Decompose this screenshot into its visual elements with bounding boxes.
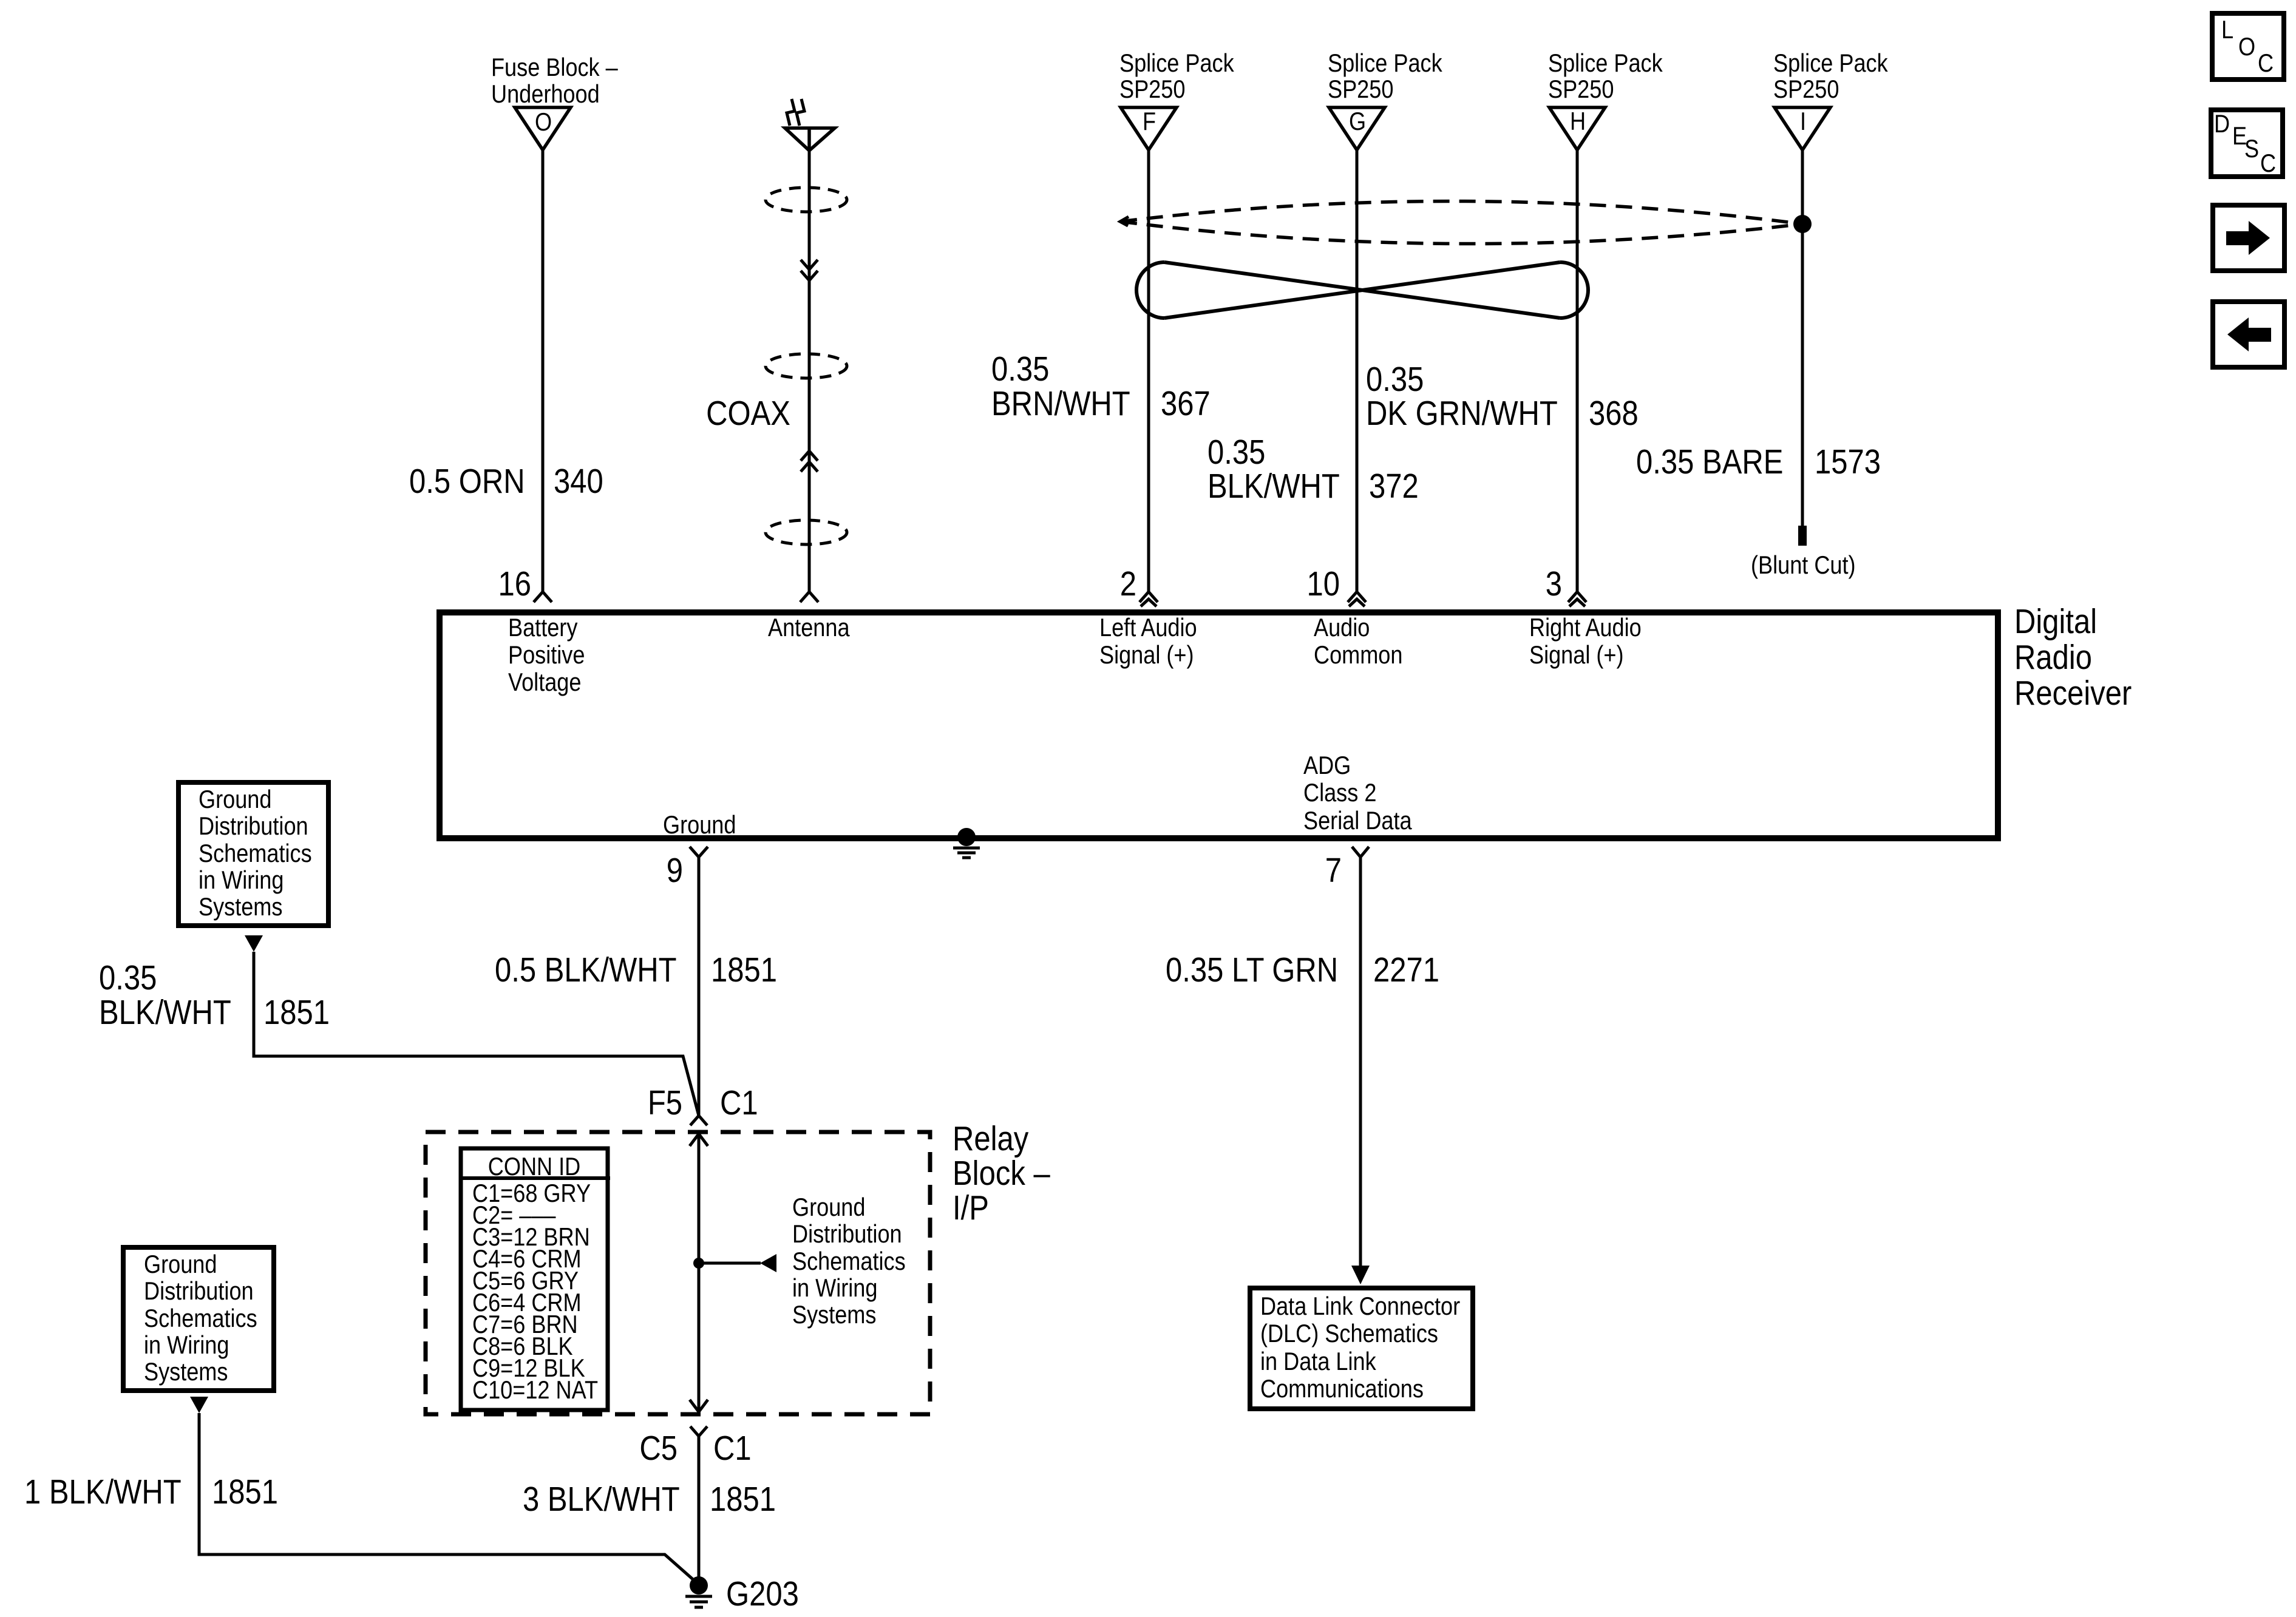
svg-text:C: C xyxy=(2260,150,2276,178)
svg-text:2: 2 xyxy=(1120,565,1136,603)
svg-text:G: G xyxy=(1349,108,1366,136)
fuse block - underhood label xyxy=(491,54,618,109)
label COAX xyxy=(706,395,790,433)
svg-text:Battery: Battery xyxy=(508,614,578,642)
svg-text:0.5 BLK/WHT: 0.5 BLK/WHT xyxy=(495,951,677,989)
svg-text:0.35 LT GRN: 0.35 LT GRN xyxy=(1166,951,1338,989)
splice pack SP250 I label xyxy=(1773,50,1888,104)
arrow from ground distribution box 1 xyxy=(245,935,263,952)
splice pack SP250 F label xyxy=(1119,50,1234,104)
down arrow chevron at relay block exit xyxy=(690,1400,708,1412)
svg-text:Distribution: Distribution xyxy=(144,1278,254,1306)
svg-text:Splice Pack: Splice Pack xyxy=(1548,50,1663,78)
wire: 0.35 DK GRN/WHT 368 (right audio) xyxy=(1576,150,1579,592)
svg-text:Splice Pack: Splice Pack xyxy=(1328,50,1442,78)
svg-text:1 BLK/WHT: 1 BLK/WHT xyxy=(24,1473,182,1511)
value label 0.35 BLK/WHT 1851 xyxy=(99,959,330,1032)
svg-text:0.5 ORN: 0.5 ORN xyxy=(409,463,525,501)
svg-text:Voltage: Voltage xyxy=(508,669,581,697)
coax shield ellipse 3 xyxy=(766,520,847,544)
svg-text:BLK/WHT: BLK/WHT xyxy=(1207,467,1340,506)
svg-text:Schematics: Schematics xyxy=(144,1305,257,1333)
splice pack H triangle xyxy=(1549,107,1605,150)
svg-text:Systems: Systems xyxy=(144,1358,228,1386)
wire: 1 BLK/WHT 1851 branch xyxy=(199,1413,696,1582)
DESC navigation icon xyxy=(2211,110,2283,178)
pin label Right Audio Signal (+) xyxy=(1529,614,1642,670)
svg-text:(DLC) Schematics: (DLC) Schematics xyxy=(1260,1320,1438,1348)
shield drain dashed ellipse xyxy=(1120,201,1802,243)
antenna symbol xyxy=(785,99,835,151)
wire: ground path through relay block xyxy=(698,1134,701,1412)
value label 0.5 BLK/WHT 1851 xyxy=(495,951,777,989)
svg-text:in Wiring: in Wiring xyxy=(144,1332,229,1360)
splice pack SP250 H label xyxy=(1548,50,1663,104)
svg-text:G203: G203 xyxy=(726,1575,799,1613)
left arrow navigation icon xyxy=(2213,302,2284,367)
svg-text:Common: Common xyxy=(1314,642,1402,670)
svg-text:0.35: 0.35 xyxy=(1207,433,1265,472)
svg-text:Splice Pack: Splice Pack xyxy=(1119,50,1234,78)
pin label Ground xyxy=(663,812,736,839)
digital radio receiver box U1 xyxy=(440,612,1998,838)
svg-text:Systems: Systems xyxy=(199,893,282,921)
svg-text:1851: 1851 xyxy=(710,1480,776,1519)
pin 3 xyxy=(1546,565,1562,603)
pin 16 xyxy=(498,565,531,603)
svg-text:F5: F5 xyxy=(648,1084,682,1122)
connector O (Fuse Block - Underhood) triangle xyxy=(515,107,571,150)
svg-text:O: O xyxy=(535,109,552,137)
svg-text:Ground: Ground xyxy=(199,786,271,814)
ground G203 xyxy=(685,1575,799,1613)
svg-text:in Data Link: in Data Link xyxy=(1260,1348,1376,1376)
value label 1 BLK/WHT 1851 xyxy=(24,1473,278,1511)
label (Blunt Cut) xyxy=(1751,552,1856,580)
component name Relay Block - I/P xyxy=(953,1120,1050,1227)
svg-text:Signal (+): Signal (+) xyxy=(1529,642,1624,670)
svg-text:Right Audio: Right Audio xyxy=(1529,614,1642,642)
splice pack I triangle xyxy=(1775,107,1830,150)
svg-text:S: S xyxy=(2244,135,2259,163)
pin label Battery Positive Voltage xyxy=(508,614,585,697)
pin 9 xyxy=(667,852,683,890)
svg-text:Splice Pack: Splice Pack xyxy=(1773,50,1888,78)
svg-text:3: 3 xyxy=(1546,565,1562,603)
svg-text:372: 372 xyxy=(1369,467,1419,506)
pin 2 xyxy=(1120,565,1136,603)
svg-text:Ground: Ground xyxy=(663,812,736,839)
value label 3 BLK/WHT 1851 xyxy=(523,1480,776,1519)
svg-text:H: H xyxy=(1570,108,1586,136)
connector at pin 9 xyxy=(690,847,708,857)
svg-text:SP250: SP250 xyxy=(1328,76,1393,104)
connector at pin 7 xyxy=(1352,847,1369,857)
svg-text:Fuse Block –: Fuse Block – xyxy=(491,54,618,82)
svg-text:2271: 2271 xyxy=(1373,951,1439,989)
svg-text:F: F xyxy=(1143,108,1156,136)
pin 10 xyxy=(1306,565,1340,603)
svg-text:I/P: I/P xyxy=(953,1189,989,1227)
svg-text:Signal (+): Signal (+) xyxy=(1099,642,1194,670)
svg-text:Schematics: Schematics xyxy=(199,840,312,868)
svg-text:Ground: Ground xyxy=(144,1251,217,1279)
wire: coax antenna lead xyxy=(808,151,811,592)
svg-text:Receiver: Receiver xyxy=(2014,674,2131,713)
svg-text:(Blunt Cut): (Blunt Cut) xyxy=(1751,552,1856,580)
svg-text:367: 367 xyxy=(1161,385,1211,423)
svg-text:CONN ID: CONN ID xyxy=(488,1153,580,1181)
svg-text:Data Link Connector: Data Link Connector xyxy=(1260,1293,1460,1321)
svg-text:SP250: SP250 xyxy=(1119,76,1185,104)
svg-text:0.35 BARE: 0.35 BARE xyxy=(1636,443,1783,481)
value label 0.5 ORN 340 xyxy=(409,463,603,501)
connector at pin 2 xyxy=(1140,592,1158,606)
coax shield ellipse 2 xyxy=(766,354,847,378)
svg-text:D: D xyxy=(2214,110,2230,138)
connector at pin 16 xyxy=(534,592,552,602)
coax shield ellipse 1 xyxy=(766,188,847,212)
connector at antenna pin xyxy=(800,592,818,602)
wire: 0.5 ORN 340 (battery feed) xyxy=(542,150,545,592)
pin label ADG Class 2 Serial Data xyxy=(1303,752,1412,835)
svg-text:7: 7 xyxy=(1325,852,1342,890)
svg-text:Schematics: Schematics xyxy=(792,1248,906,1276)
coax direction chevrons up xyxy=(801,451,818,472)
value label 0.35 BRN/WHT 367 xyxy=(991,350,1211,423)
svg-text:16: 16 xyxy=(498,565,531,603)
value label 0.35 DK GRN/WHT 368 xyxy=(1366,361,1639,433)
svg-text:C: C xyxy=(2258,50,2274,78)
svg-text:L: L xyxy=(2221,16,2233,44)
svg-text:C1: C1 xyxy=(720,1084,758,1122)
pin label Antenna xyxy=(768,614,850,642)
value label 0.35 BLK/WHT 372 xyxy=(1207,433,1419,506)
blunt cut terminator xyxy=(1798,526,1807,546)
wire: 3 BLK/WHT 1851 to G203 xyxy=(698,1436,701,1585)
svg-text:Ground: Ground xyxy=(792,1194,865,1222)
svg-text:C10=12 NAT: C10=12 NAT xyxy=(472,1377,598,1405)
svg-text:Digital: Digital xyxy=(2014,603,2097,641)
component name Digital Radio Receiver xyxy=(2014,603,2131,713)
relay block I/P dashed outline xyxy=(426,1132,930,1414)
ground distribution reference note in relay block xyxy=(792,1194,906,1329)
wire: 0.35 BRN/WHT 367 (left audio) xyxy=(1147,150,1150,592)
wire: 0.5 BLK/WHT 1851 (ground) xyxy=(698,857,701,1116)
svg-text:1573: 1573 xyxy=(1815,443,1881,481)
splice pack G triangle xyxy=(1329,107,1385,150)
branch wire to ground distribution reference xyxy=(699,1254,776,1272)
svg-text:C1: C1 xyxy=(713,1429,752,1468)
wire: 0.35 LT GRN 2271 (class 2 serial data) xyxy=(1351,857,1370,1284)
CONN ID table xyxy=(459,1148,610,1410)
svg-text:1851: 1851 xyxy=(263,994,330,1032)
splice pack SP250 G label xyxy=(1328,50,1442,104)
value label 0.35 BARE 1573 xyxy=(1636,443,1881,481)
ground distribution reference box 2 xyxy=(123,1247,274,1391)
svg-text:Underhood: Underhood xyxy=(491,81,600,109)
value label 0.35 LT GRN 2271 xyxy=(1166,951,1439,989)
svg-text:Serial Data: Serial Data xyxy=(1303,807,1412,835)
connector at pin 10 xyxy=(1348,592,1366,606)
svg-text:BLK/WHT: BLK/WHT xyxy=(99,994,231,1032)
svg-text:SP250: SP250 xyxy=(1548,76,1614,104)
svg-text:Audio: Audio xyxy=(1314,614,1370,642)
svg-text:3 BLK/WHT: 3 BLK/WHT xyxy=(523,1480,680,1519)
ground distribution reference box 1 xyxy=(178,782,328,926)
right arrow navigation icon xyxy=(2213,205,2284,271)
svg-text:SP250: SP250 xyxy=(1773,76,1839,104)
chassis ground symbol on receiver case xyxy=(953,828,980,858)
twisted pair symbol xyxy=(1136,262,1588,318)
svg-text:0.35: 0.35 xyxy=(1366,361,1424,399)
wire: 0.35 BLK/WHT 372 (audio common) xyxy=(1356,150,1359,592)
LOC navigation icon xyxy=(2212,13,2284,80)
svg-text:Distribution: Distribution xyxy=(792,1221,902,1249)
svg-text:9: 9 xyxy=(667,852,683,890)
pin label Audio Common xyxy=(1314,614,1402,670)
svg-text:Block –: Block – xyxy=(953,1154,1050,1193)
junction dot in relay block xyxy=(693,1258,704,1269)
svg-text:ADG: ADG xyxy=(1303,752,1351,780)
svg-text:Class 2: Class 2 xyxy=(1303,779,1376,807)
wire: 0.35 BLK/WHT 1851 branch xyxy=(254,952,699,1116)
svg-text:COAX: COAX xyxy=(706,395,790,433)
svg-text:1851: 1851 xyxy=(711,951,777,989)
svg-text:10: 10 xyxy=(1306,565,1340,603)
svg-text:1851: 1851 xyxy=(212,1473,278,1511)
connector at pin 3 xyxy=(1568,592,1586,606)
svg-text:C5: C5 xyxy=(639,1429,678,1468)
svg-text:DK GRN/WHT: DK GRN/WHT xyxy=(1366,395,1558,433)
svg-text:Relay: Relay xyxy=(953,1120,1029,1158)
connector F5 / C1 xyxy=(648,1084,758,1146)
coax direction chevrons down xyxy=(801,260,818,280)
wire: 0.35 BARE 1573 (drain wire) xyxy=(1801,150,1804,526)
splice pack F triangle xyxy=(1121,107,1177,150)
svg-text:in Wiring: in Wiring xyxy=(792,1275,877,1303)
svg-text:I: I xyxy=(1800,108,1806,136)
arrow from ground distribution box 2 xyxy=(190,1397,208,1413)
svg-text:Positive: Positive xyxy=(508,642,585,670)
svg-text:Radio: Radio xyxy=(2014,639,2092,677)
svg-text:340: 340 xyxy=(554,463,603,501)
pin label Left Audio Signal (+) xyxy=(1099,614,1197,670)
svg-text:in Wiring: in Wiring xyxy=(199,867,284,895)
junction dot on wire I xyxy=(1793,215,1812,233)
svg-text:Antenna: Antenna xyxy=(768,614,850,642)
svg-text:368: 368 xyxy=(1589,395,1639,433)
data link connector reference box xyxy=(1250,1288,1473,1409)
svg-text:BRN/WHT: BRN/WHT xyxy=(991,385,1130,423)
connector C5 / C1 xyxy=(639,1426,751,1468)
svg-text:Systems: Systems xyxy=(792,1301,876,1329)
svg-text:Communications: Communications xyxy=(1260,1375,1424,1403)
svg-text:O: O xyxy=(2238,33,2255,61)
svg-text:0.35: 0.35 xyxy=(99,959,157,997)
svg-text:0.35: 0.35 xyxy=(991,350,1049,388)
pin 7 xyxy=(1325,852,1342,890)
svg-text:Left Audio: Left Audio xyxy=(1099,614,1197,642)
svg-text:Distribution: Distribution xyxy=(199,813,308,841)
